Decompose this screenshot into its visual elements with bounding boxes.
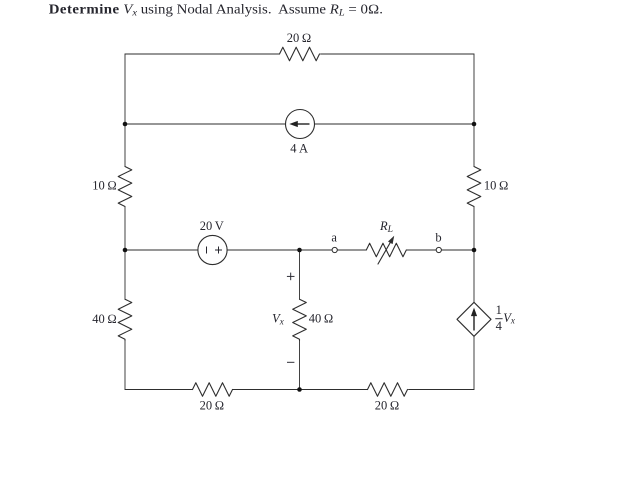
svg-text:b: b: [435, 230, 441, 244]
current source 4A arrow: [289, 121, 309, 127]
resistor 10ohm left: [118, 167, 132, 207]
svg-text:4: 4: [496, 319, 503, 333]
svg-text:Vx: Vx: [272, 312, 284, 327]
svg-text:20 V: 20 V: [200, 219, 224, 233]
resistor 20ohm bottom-left: [193, 383, 233, 397]
node b open circle: [436, 247, 441, 252]
resistor 10ohm right: [467, 167, 481, 207]
wire row3 from left rail to 20V source: [125, 249, 198, 251]
wire left rail upper: [124, 54, 126, 167]
wire bottom left: [125, 389, 193, 391]
svg-text:a: a: [331, 230, 337, 244]
voltage source 20V polarity plus: [215, 247, 222, 254]
voltage source 20V polarity minus (rotated bar): [206, 247, 208, 254]
dependent source diamond: [457, 302, 491, 336]
wire bottom middle: [233, 389, 368, 391]
junction dot bottom Vx: [297, 387, 302, 392]
svg-text:Vx: Vx: [503, 311, 515, 326]
wire left rail middle: [124, 207, 126, 299]
wire bottom right: [409, 389, 475, 391]
svg-text:1: 1: [496, 303, 502, 317]
wire row3 node a to RL: [338, 249, 367, 251]
wire Vx branch lower: [299, 341, 301, 390]
wire right rail upper: [473, 54, 475, 167]
node a open circle: [332, 247, 337, 252]
junction dot row2 right: [472, 122, 477, 127]
svg-text:40 Ω: 40 Ω: [309, 312, 334, 326]
current source 4A circle: [286, 110, 315, 139]
resistor 40ohm Vx: [293, 299, 307, 340]
junction dot row3 right: [472, 248, 477, 253]
svg-text:4 A: 4 A: [290, 142, 308, 156]
wire left rail lower: [124, 341, 126, 390]
RL arrow head: [388, 236, 394, 244]
svg-text:RL: RL: [379, 219, 393, 235]
svg-text:20 Ω: 20 Ω: [375, 399, 400, 413]
svg-text:40 Ω: 40 Ω: [92, 312, 117, 326]
wire row2 right: [315, 123, 475, 125]
label Vx minus: [287, 361, 294, 363]
resistor 40ohm left: [118, 299, 132, 340]
wire right rail lower: [473, 336, 475, 389]
wire row2 left: [125, 123, 286, 125]
svg-text:Determine Vx using Nodal Analy: Determine Vx using Nodal Analysis. Assum…: [49, 2, 383, 18]
resistor RL arrow: [378, 239, 392, 264]
resistor 20ohm bottom-right: [368, 383, 408, 397]
svg-text:10 Ω: 10 Ω: [92, 178, 117, 192]
wire row3 RL to node b: [407, 249, 436, 251]
label quarter Vx fraction: [495, 303, 515, 333]
label Vx plus: [287, 273, 295, 281]
wire top-right horizontal: [321, 53, 475, 55]
resistor 20ohm top: [280, 47, 320, 61]
svg-text:10 Ω: 10 Ω: [484, 178, 509, 192]
resistor RL variable: [366, 243, 406, 257]
junction dot row2 left: [123, 122, 128, 127]
wire right rail middle: [473, 207, 475, 302]
wire row3 node b to right rail: [442, 249, 474, 251]
svg-text:20 Ω: 20 Ω: [287, 31, 312, 45]
wire row3 source to node a: [227, 249, 332, 251]
svg-text:20 Ω: 20 Ω: [200, 399, 225, 413]
voltage source 20V circle: [198, 235, 227, 264]
wire Vx branch upper: [299, 250, 301, 299]
junction dot row3 Vx: [297, 248, 302, 253]
wire top-left horizontal: [125, 53, 280, 55]
junction dot row3 left: [123, 248, 128, 253]
dependent source arrow: [471, 308, 477, 331]
